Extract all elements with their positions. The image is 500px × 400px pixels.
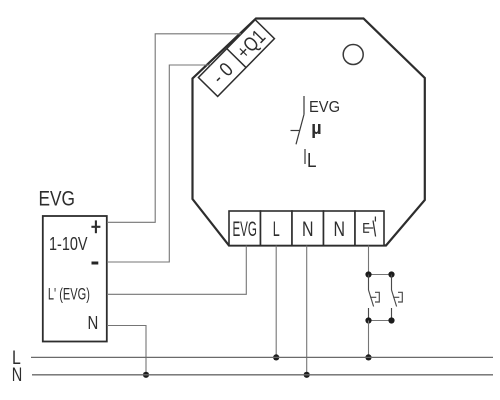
wire + (ballast to +Q1) <box>107 34 241 223</box>
svg-text:L: L <box>307 150 317 172</box>
svg-text:µ: µ <box>311 118 321 138</box>
junction top left <box>365 271 371 277</box>
svg-text:N: N <box>12 365 22 386</box>
wire E' terminal down <box>368 246 370 275</box>
svg-text:N: N <box>302 218 314 241</box>
EVG ballast box <box>43 216 107 342</box>
label minus <box>92 262 99 265</box>
N supply line <box>32 374 493 376</box>
svg-text:1-10V: 1-10V <box>49 234 88 254</box>
mounting hole circle <box>343 45 363 65</box>
svg-text:N: N <box>333 218 345 241</box>
junction top right <box>388 271 394 277</box>
junction ballast N to N line <box>143 372 149 378</box>
wire bottom of pushbutton branch <box>369 320 392 322</box>
svg-text:EVG: EVG <box>39 188 76 211</box>
wire N terminal to N line <box>306 246 308 375</box>
pushbutton S1 <box>369 275 380 321</box>
dimmer insert U1 octagon body <box>193 19 425 246</box>
relay contact symbol inside U1 <box>291 96 306 164</box>
junction N <box>304 372 310 378</box>
junction bottom left <box>365 317 371 323</box>
wire N (ballast to N line) <box>107 326 146 375</box>
wire pushbutton branch to L line <box>368 321 370 358</box>
bottom terminal row of U1 <box>229 211 384 246</box>
pushbutton symbol in E' terminal box <box>364 217 376 237</box>
svg-text:EVG: EVG <box>309 99 340 116</box>
svg-text:L' (EVG): L' (EVG) <box>48 286 90 304</box>
svg-text:EVG: EVG <box>232 218 257 241</box>
wire top of pushbutton branch <box>369 274 392 276</box>
terminal strip TB1 (1-10V control, slanted) <box>198 20 274 97</box>
svg-text:L: L <box>273 218 280 241</box>
pushbutton S2 <box>392 275 403 321</box>
L supply line <box>31 356 493 358</box>
junction bottom right <box>388 317 394 323</box>
wire L terminal to L line <box>275 246 277 358</box>
junction L <box>273 354 279 360</box>
wire L'(EVG) to EVG terminal <box>107 246 246 295</box>
label + <box>91 220 100 233</box>
wire - (ballast to -0) <box>107 65 211 262</box>
junction E' branch on L line <box>365 354 371 360</box>
svg-text:N: N <box>88 312 99 333</box>
